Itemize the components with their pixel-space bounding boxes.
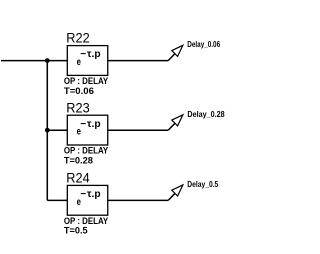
svg-text:R24: R24	[66, 170, 90, 186]
svg-text:τ.p: τ.p	[87, 119, 101, 130]
svg-text:T=0.28: T=0.28	[64, 155, 93, 166]
svg-text:R23: R23	[66, 99, 90, 115]
svg-text:−: −	[80, 49, 86, 60]
svg-text:τ.p: τ.p	[87, 189, 101, 200]
svg-text:Delay_0.28: Delay_0.28	[187, 110, 225, 119]
svg-text:T=0.06: T=0.06	[64, 86, 94, 97]
svg-text:τ.p: τ.p	[87, 49, 101, 60]
svg-text:OP : DELAY: OP : DELAY	[64, 146, 108, 156]
svg-text:Delay_0.5: Delay_0.5	[187, 180, 218, 189]
svg-text:Delay_0.06: Delay_0.06	[187, 40, 220, 49]
svg-text:OP : DELAY: OP : DELAY	[64, 216, 108, 226]
svg-text:T=0.5: T=0.5	[64, 226, 88, 237]
svg-text:−: −	[80, 189, 86, 200]
svg-text:R22: R22	[66, 30, 90, 46]
svg-text:OP : DELAY: OP : DELAY	[64, 76, 108, 86]
svg-text:−: −	[80, 119, 86, 130]
